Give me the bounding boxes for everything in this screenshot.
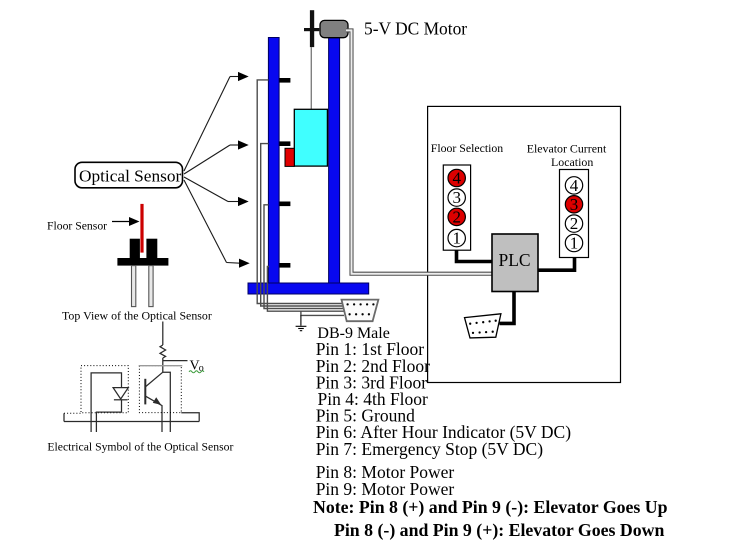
svg-text:2: 2 (570, 214, 579, 233)
callout arrow 3 (184, 177, 249, 206)
svg-text:2: 2 (453, 208, 462, 227)
svg-text:Floor Selection: Floor Selection (431, 141, 504, 155)
svg-text:3: 3 (570, 195, 579, 214)
wire PLC to DB-9 (500, 292, 515, 324)
callout arrow 2 (184, 140, 249, 174)
motor power wire to PLC (346, 30, 492, 273)
svg-text:4: 4 (570, 176, 579, 195)
PLC panel enclosure box (428, 106, 621, 382)
svg-text:Optical Sensor: Optical Sensor (79, 167, 181, 186)
svg-text:PLC: PLC (499, 250, 531, 270)
gray top edge of right box (139, 365, 183, 367)
DB-9 connector J2 (tilted) (465, 314, 501, 338)
sensor wire 2 (261, 144, 344, 306)
svg-text:1: 1 (453, 229, 462, 248)
floor sensor tick 2 (280, 141, 291, 146)
motor crossbar (304, 28, 319, 31)
location lamp 3 (lit) (565, 195, 582, 214)
Optical Sensor callout box (75, 162, 183, 188)
opto-coupler schematic (145, 322, 187, 433)
car flag (red) (285, 148, 294, 166)
sensor wire 3 (264, 205, 344, 309)
ground rail (64, 421, 199, 423)
phototransistor Q1 emitter (146, 396, 162, 432)
svg-text:Location: Location (551, 155, 593, 169)
sensor wire 1 (257, 80, 344, 304)
phototransistor Q1 collector (146, 372, 163, 386)
spellcheck squiggle under Vo (189, 371, 204, 373)
DB-9 male connector J1 (342, 300, 379, 322)
svg-text:Note: Pin 8 (+) and Pin 9 (-):: Note: Pin 8 (+) and Pin 9 (-): Elevator … (313, 497, 668, 518)
floor selection indicator housing (443, 165, 470, 250)
LED D1 triangle (113, 388, 128, 399)
5V DC motor body M1 (320, 20, 348, 37)
label Vo (190, 359, 204, 375)
svg-text:Floor Sensor: Floor Sensor (47, 220, 107, 233)
elevator left rail (268, 38, 279, 285)
svg-text:3: 3 (453, 188, 462, 207)
elevator base bar (248, 283, 369, 294)
LED D1 cathode wire (96, 400, 121, 432)
emitter arrowhead (153, 397, 161, 405)
LED D1 anode wire (91, 373, 121, 432)
hoist string (310, 47, 312, 110)
callout arrow 1 (184, 72, 249, 171)
floor selection lamp 4 (lit) (448, 169, 465, 188)
svg-text:4: 4 (453, 169, 462, 188)
elevator car (294, 109, 327, 166)
optical sensor top view body (117, 239, 168, 266)
LED D1 cathode bar (114, 399, 128, 401)
ground wire (301, 311, 344, 315)
floor selection lamp 3 (448, 188, 465, 207)
sensor wire 4 (267, 267, 344, 312)
resistor R1 lead (162, 322, 164, 346)
svg-text:5-V DC Motor: 5-V DC Motor (364, 19, 467, 39)
svg-text:Pin 9: Motor Power: Pin 9: Motor Power (316, 479, 455, 499)
dashed stub bottom-left (64, 412, 81, 414)
sensor leg 2 (149, 266, 153, 307)
location lamp 4 (565, 176, 582, 195)
sensor leg 1 (132, 266, 136, 307)
svg-text:Pin 7: Emergency Stop (5V DC): Pin 7: Emergency Stop (5V DC) (316, 439, 544, 459)
svg-text:Elevator Current: Elevator Current (527, 142, 607, 156)
location lamp 2 (565, 214, 582, 233)
svg-text:Top View of the Optical Sensor: Top View of the Optical Sensor (62, 309, 212, 323)
collector branch wire (163, 372, 171, 432)
svg-text:1: 1 (570, 234, 579, 253)
ground symbol (296, 315, 307, 330)
phototransistor Q1 base bar (144, 379, 146, 405)
sensor slot red vane (140, 204, 143, 253)
left rail drop wire (63, 413, 65, 421)
resistor R1 bottom lead (162, 358, 164, 372)
motor shaft bar (310, 10, 314, 47)
resistor R1 (160, 345, 166, 358)
callout arrow 4 (184, 180, 250, 268)
wire floor-selection to PLC (457, 250, 493, 261)
optocoupler dashed box right (139, 366, 181, 413)
wire location to PLC (538, 258, 575, 271)
right rail drop wire (181, 413, 199, 422)
optocoupler dashed box left (81, 366, 128, 413)
floor sensor tick 4 (280, 263, 291, 268)
location lamp 1 (565, 234, 582, 253)
elevator location indicator housing (560, 170, 589, 258)
floor sensor pointer arrow (112, 217, 140, 226)
elevator right rail (329, 38, 340, 285)
svg-text:Electrical Symbol of the Optic: Electrical Symbol of the Optical Sensor (47, 441, 233, 454)
floor sensor tick 1 (280, 78, 291, 83)
floor selection lamp 2 (lit) (448, 208, 465, 227)
node Vo line (163, 360, 188, 362)
svg-text:Pin 8 (-) and Pin 9 (+): Eleva: Pin 8 (-) and Pin 9 (+): Elevator Goes D… (334, 520, 664, 541)
PLC controller U1 (492, 234, 538, 292)
floor selection lamp 1 (448, 229, 465, 248)
floor sensor tick 3 (280, 202, 291, 207)
